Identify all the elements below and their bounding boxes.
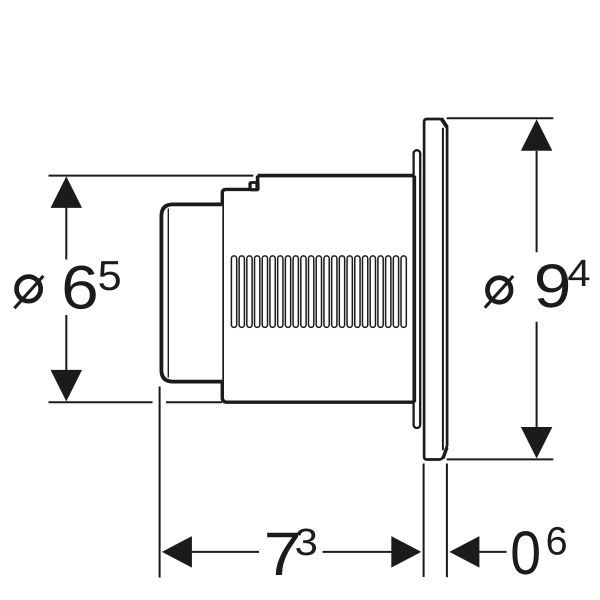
teeth (thread ribs) bbox=[231, 256, 406, 328]
left dim extension top bbox=[49, 175, 254, 177]
plate top chamfer thick bbox=[441, 118, 447, 127]
bottom ext line flange left bbox=[423, 464, 425, 578]
svg-text:6: 6 bbox=[546, 519, 568, 563]
7-3 dim line bbox=[191, 551, 392, 553]
dimension graphics bbox=[49, 118, 554, 577]
0-6 tail line bbox=[479, 551, 507, 553]
left dim extension bottom bbox=[49, 401, 223, 403]
body top edge right portion bbox=[258, 174, 415, 178]
arrow up left dim bbox=[51, 176, 83, 208]
notch square bbox=[248, 181, 259, 191]
right dim line segments bbox=[536, 151, 538, 428]
arrow down right dim bbox=[521, 427, 553, 459]
arrow left 0-6 bbox=[449, 536, 479, 568]
body main outline bbox=[222, 176, 415, 403]
left dim line segments bbox=[65, 207, 67, 371]
plate bottom chamfer thick bbox=[443, 448, 447, 459]
bottom ext line left bbox=[159, 387, 161, 578]
arrow up right dim bbox=[521, 119, 553, 151]
svg-text:5: 5 bbox=[98, 252, 122, 299]
arrow right 7-3 bbox=[391, 536, 421, 568]
label ø of 9^4 drawn bbox=[485, 276, 514, 308]
cap (button) bbox=[161, 204, 222, 381]
body right edge over strip bbox=[413, 176, 416, 403]
bottom ext line flange right bbox=[446, 464, 448, 578]
arrow down left dim bbox=[51, 370, 83, 402]
plate tangent line bbox=[442, 128, 444, 450]
cap inner line bbox=[167, 209, 169, 378]
label ø of 6^5 drawn bbox=[14, 276, 43, 308]
svg-text:0: 0 bbox=[510, 519, 541, 588]
flange plate bbox=[424, 119, 447, 460]
arrow left 7-3 bbox=[162, 536, 192, 568]
arrows bbox=[51, 119, 553, 567]
strip (ring behind plate) bbox=[414, 150, 421, 428]
svg-text:4: 4 bbox=[567, 253, 590, 295]
body right edge bbox=[413, 176, 416, 403]
right dim extension top bbox=[447, 117, 554, 119]
svg-text:9: 9 bbox=[534, 252, 572, 321]
notch connector bbox=[256, 176, 260, 183]
svg-text:6: 6 bbox=[61, 254, 99, 323]
svg-text:3: 3 bbox=[295, 522, 318, 564]
right dim extension bottom bbox=[447, 458, 554, 460]
